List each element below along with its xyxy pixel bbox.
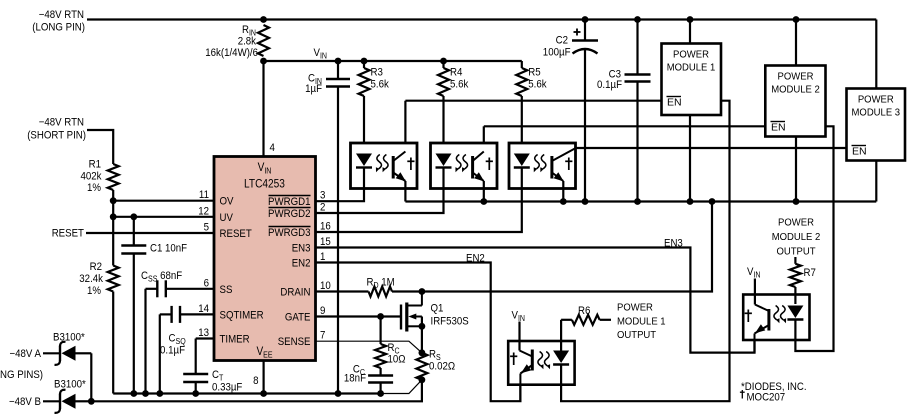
wire PM2 top lead bbox=[795, 20, 797, 66]
svg-text:1: 1 bbox=[320, 251, 325, 263]
wire UV line bbox=[113, 216, 214, 218]
op-amp U1 LTC4253 body bbox=[214, 157, 316, 361]
svg-text:PWRGD2: PWRGD2 bbox=[268, 208, 311, 220]
node C3 bottom bbox=[634, 198, 641, 205]
svg-text:MODULE 2: MODULE 2 bbox=[772, 232, 821, 243]
label POWER MODULE 1 OUTPUT bbox=[617, 303, 666, 342]
pin 7 SENSE label bbox=[278, 330, 326, 349]
svg-text:CSS 68nF: CSS 68nF bbox=[141, 270, 182, 284]
wire opto4 LED cathode to PM1 out bbox=[561, 101, 729, 402]
diode D1 B3100 (-48V A) bbox=[10, 332, 92, 365]
wire opto5 LED cathode to PM2 out bbox=[795, 126, 833, 351]
wire diode A down bbox=[90, 353, 92, 401]
pin number 4 bbox=[270, 142, 275, 154]
pin 11 OV label bbox=[199, 189, 234, 208]
wire drain line to rail bbox=[422, 202, 712, 292]
node C3 top bbox=[634, 16, 641, 23]
svg-text:0.02Ω: 0.02Ω bbox=[429, 361, 455, 373]
svg-text:GATE: GATE bbox=[285, 312, 311, 324]
svg-text:C2: C2 bbox=[556, 35, 568, 47]
svg-text:MODULE 2: MODULE 2 bbox=[771, 85, 820, 96]
wire opto5 emitter to EN3 bbox=[753, 340, 755, 353]
svg-text:TIMER: TIMER bbox=[220, 334, 250, 346]
label MOC207 bbox=[740, 390, 785, 404]
wire opto1 cathode to PWRGD1 bbox=[316, 189, 365, 202]
optocoupler U2 (PWRGD1) bbox=[351, 143, 418, 189]
node RC top bbox=[377, 313, 384, 320]
pin 2 PWRGD2 label bbox=[268, 202, 325, 221]
capacitor CT 0.33uF bbox=[183, 339, 242, 394]
label (LONG PINS) bbox=[0, 369, 43, 381]
resistor R2 bbox=[79, 261, 118, 297]
resistor R4 bbox=[438, 61, 469, 143]
pin 5 RESET label bbox=[204, 222, 252, 241]
svg-text:1µF: 1µF bbox=[305, 83, 322, 95]
svg-text:4: 4 bbox=[270, 142, 275, 154]
capacitor C1 10nF bbox=[121, 217, 187, 394]
label -48V RTN (LONG PIN) bbox=[32, 9, 85, 34]
svg-text:MODULE 1: MODULE 1 bbox=[617, 317, 666, 328]
svg-text:POWER: POWER bbox=[778, 72, 814, 83]
wire opto4 emitter to EN2 bbox=[519, 385, 521, 402]
wire PM2 bottom lead bbox=[795, 137, 797, 202]
svg-text:5.6k: 5.6k bbox=[371, 79, 390, 91]
label IC VEE bbox=[256, 346, 272, 360]
svg-text:EN: EN bbox=[771, 122, 786, 134]
label -48V RTN (SHORT PIN) bbox=[27, 117, 86, 142]
diode opto4 LED bbox=[553, 320, 569, 385]
node diode junction bbox=[88, 398, 95, 405]
svg-text:MOC207: MOC207 bbox=[747, 392, 786, 404]
wire RESET line bbox=[86, 232, 214, 234]
wire PM3 top lead bbox=[875, 20, 877, 89]
squiggle opto4 bbox=[538, 352, 550, 370]
svg-text:MODULE 1: MODULE 1 bbox=[667, 63, 716, 74]
svg-text:B3100*: B3100* bbox=[54, 379, 86, 391]
svg-text:14: 14 bbox=[198, 303, 209, 315]
wire VEE rail kelvin thin bbox=[381, 380, 422, 394]
svg-text:12: 12 bbox=[198, 205, 209, 217]
wire EN2 line (opto2 collector to PM2 EN) bbox=[484, 126, 766, 143]
wire CIN down to VEE rail bbox=[337, 87, 339, 394]
svg-text:B3100*: B3100* bbox=[53, 332, 85, 344]
pin 6 SS label bbox=[204, 277, 233, 296]
transistor opto5 bbox=[745, 309, 769, 340]
svg-text:EN3: EN3 bbox=[292, 243, 311, 255]
wire opto2 emitter down bbox=[483, 181, 485, 202]
svg-text:R2: R2 bbox=[90, 261, 102, 273]
svg-text:6: 6 bbox=[204, 277, 209, 289]
svg-text:0.33µF: 0.33µF bbox=[212, 382, 243, 394]
resistor RS 0.02ohm bbox=[416, 349, 455, 380]
svg-text:16k(1/4W)/6: 16k(1/4W)/6 bbox=[205, 47, 258, 59]
node R3 top bbox=[361, 58, 368, 65]
svg-text:0.1µF: 0.1µF bbox=[160, 345, 185, 357]
svg-text:POWER: POWER bbox=[673, 50, 709, 61]
capacitor CC 18nF bbox=[344, 364, 393, 394]
svg-text:0.1µF: 0.1µF bbox=[597, 79, 622, 91]
node CIN top bbox=[335, 58, 342, 65]
svg-text:MODULE 3: MODULE 3 bbox=[852, 108, 901, 119]
node RS top bbox=[419, 349, 426, 356]
svg-text:−48V A: −48V A bbox=[10, 348, 42, 360]
svg-text:13: 13 bbox=[198, 327, 209, 339]
wire PM3 bottom lead bbox=[875, 161, 877, 202]
transistor opto4 bbox=[510, 350, 532, 385]
node C1 bottom bbox=[130, 390, 137, 397]
svg-text:3: 3 bbox=[320, 190, 325, 202]
pin 10 DRAIN label bbox=[280, 280, 330, 299]
node Q1 source bbox=[419, 323, 426, 330]
svg-text:EN2: EN2 bbox=[292, 258, 311, 270]
svg-text:5: 5 bbox=[204, 222, 209, 234]
label IC VIN bbox=[258, 162, 272, 176]
svg-text:NG PINS): NG PINS) bbox=[0, 369, 43, 381]
svg-text:EN: EN bbox=[667, 97, 682, 109]
wire SENSE line thin bbox=[316, 341, 422, 353]
svg-text:R5: R5 bbox=[528, 67, 540, 79]
node CSS bottom bbox=[142, 390, 149, 397]
svg-text:R7: R7 bbox=[804, 267, 816, 279]
squiggle opto5 bbox=[774, 306, 786, 324]
node R4 top bbox=[440, 58, 447, 65]
svg-text:−48V RTN: −48V RTN bbox=[39, 117, 84, 129]
wire EN1 line (opto1 collector to PM1 EN) bbox=[405, 101, 661, 143]
wire opto5 collector lead bbox=[755, 279, 769, 312]
capacitor C3 0.1uF bbox=[597, 20, 651, 202]
svg-text:10Ω: 10Ω bbox=[388, 354, 406, 366]
node C2 top bbox=[582, 16, 589, 23]
power module 1 box bbox=[662, 44, 722, 116]
node drain riser bbox=[709, 198, 716, 205]
node UV C1 bbox=[130, 213, 137, 220]
resistor RIN bbox=[205, 24, 269, 59]
pin 16 PWRGD3 label bbox=[268, 221, 331, 240]
node R_IN top bbox=[260, 16, 267, 23]
node OV bbox=[110, 197, 117, 204]
pin 3 PWRGD1 label bbox=[268, 190, 325, 209]
resistor R5 bbox=[516, 61, 547, 143]
svg-text:32.4k: 32.4k bbox=[79, 273, 103, 285]
node opto2 emitter bbox=[480, 198, 487, 205]
optocoupler U5 box bbox=[508, 341, 574, 385]
svg-text:R6: R6 bbox=[578, 305, 590, 317]
svg-text:R1: R1 bbox=[89, 159, 101, 171]
node C2 bottom bbox=[582, 198, 589, 205]
wire EN3 route bbox=[316, 248, 755, 353]
wire -48V B line to RS bbox=[91, 380, 422, 402]
svg-text:2: 2 bbox=[320, 202, 325, 214]
capacitor CIN bbox=[305, 61, 350, 95]
svg-text:DRAIN: DRAIN bbox=[280, 287, 310, 299]
svg-text:18nF: 18nF bbox=[344, 373, 366, 385]
wire opto2 cathode to PWRGD2 bbox=[316, 189, 444, 214]
wire pin4 stub bbox=[262, 61, 264, 157]
wire -48V RTN top rail bbox=[87, 18, 876, 20]
svg-text:SENSE: SENSE bbox=[278, 336, 311, 348]
node RIN bottom / VIN rail bbox=[260, 58, 267, 65]
svg-text:SQTIMER: SQTIMER bbox=[220, 309, 264, 321]
wire VEE rail bbox=[113, 392, 381, 394]
svg-text:IRF530S: IRF530S bbox=[431, 316, 469, 328]
label POWER MODULE 2 OUTPUT bbox=[772, 218, 821, 258]
label VIN bbox=[314, 47, 328, 61]
svg-text:OUTPUT: OUTPUT bbox=[776, 247, 815, 258]
resistor R3 bbox=[359, 61, 390, 143]
node PM2 +in top bbox=[793, 16, 800, 23]
svg-text:10: 10 bbox=[320, 280, 331, 292]
svg-text:EN: EN bbox=[852, 146, 867, 158]
svg-text:LTC4253: LTC4253 bbox=[244, 179, 285, 191]
node UV col bbox=[110, 213, 117, 220]
svg-text:R4: R4 bbox=[450, 67, 462, 79]
transistor Q1 IRF530S bbox=[401, 292, 469, 353]
wire PM1 top lead bbox=[689, 20, 691, 44]
wire VIN rail bbox=[264, 60, 522, 62]
diode D2 B3100 (-48V B) bbox=[9, 379, 91, 413]
capacitor CSS 68nF bbox=[141, 270, 214, 394]
svg-text:2.8k: 2.8k bbox=[238, 36, 257, 48]
node CC bottom bbox=[377, 390, 384, 397]
label EN2 bbox=[466, 253, 485, 265]
node PM2 bottom bbox=[793, 198, 800, 205]
svg-text:Q1: Q1 bbox=[431, 303, 444, 315]
wire -48V OUT rail bbox=[405, 200, 876, 202]
wire opto1 LED anode bbox=[363, 167, 365, 189]
label IC LTC4253 bbox=[244, 179, 285, 191]
svg-text:C1 10nF: C1 10nF bbox=[150, 243, 187, 255]
power module 2 box bbox=[765, 66, 825, 137]
pin 12 UV label bbox=[198, 205, 233, 224]
svg-text:15: 15 bbox=[320, 236, 331, 248]
svg-text:−48V B: −48V B bbox=[9, 396, 41, 408]
pin 13 TIMER label bbox=[198, 327, 249, 346]
label EN3 bbox=[664, 238, 683, 250]
pin 14 SQTIMER label bbox=[198, 303, 263, 322]
svg-text:1%: 1% bbox=[87, 285, 101, 297]
label VIN opto5 bbox=[747, 266, 761, 280]
svg-text:RESET: RESET bbox=[220, 228, 253, 240]
svg-text:8: 8 bbox=[253, 375, 258, 387]
node PM1 +in top bbox=[687, 16, 694, 23]
wire opto2 LED anode bbox=[442, 167, 444, 189]
svg-text:5.6k: 5.6k bbox=[528, 79, 547, 91]
pin number 8 bbox=[253, 375, 258, 387]
resistor R1 bbox=[81, 159, 119, 195]
wire opto3 LED anode bbox=[521, 167, 523, 189]
svg-text:OV: OV bbox=[220, 196, 235, 208]
svg-text:R3: R3 bbox=[371, 67, 383, 79]
label RESET bbox=[52, 228, 85, 240]
svg-text:−48V RTN: −48V RTN bbox=[39, 9, 84, 21]
svg-text:(SHORT PIN): (SHORT PIN) bbox=[27, 130, 86, 142]
svg-text:7: 7 bbox=[320, 330, 325, 342]
wire VEE pin8 stub bbox=[263, 361, 265, 394]
node Q1 drain bbox=[419, 288, 426, 295]
power module 3 box bbox=[847, 89, 906, 161]
svg-text:(LONG PIN): (LONG PIN) bbox=[32, 22, 85, 34]
svg-text:PWRGD1: PWRGD1 bbox=[268, 196, 311, 208]
pin 1 EN2 label bbox=[292, 251, 326, 270]
svg-text:POWER: POWER bbox=[858, 95, 894, 106]
svg-text:5.6k: 5.6k bbox=[450, 79, 469, 91]
label DIODES INC bbox=[741, 381, 807, 393]
resistor RD 1M bbox=[316, 277, 422, 297]
svg-text:OUTPUT: OUTPUT bbox=[617, 330, 656, 341]
svg-text:PWRGD3: PWRGD3 bbox=[268, 227, 311, 239]
optocoupler U3 (PWRGD2) bbox=[431, 143, 498, 189]
node VEE pin bottom bbox=[260, 390, 267, 397]
optocoupler U6 box bbox=[743, 295, 809, 341]
wire OV line bbox=[113, 200, 214, 202]
wire EN2 route bbox=[316, 263, 521, 402]
wire opto4 collector lead bbox=[520, 322, 533, 357]
wire opto1 emitter down bbox=[404, 181, 406, 202]
node CIN bottom bbox=[335, 390, 342, 397]
label VIN opto4 bbox=[512, 310, 526, 324]
node CT bottom bbox=[192, 390, 199, 397]
node PM1 bottom bbox=[687, 198, 694, 205]
wire EN3 line (opto3 collector to PM3 EN) bbox=[576, 147, 847, 149]
svg-text:16: 16 bbox=[320, 221, 331, 233]
pin 15 EN3 label bbox=[292, 236, 331, 255]
capacitor C2 100uF bbox=[543, 20, 598, 202]
svg-text:402k: 402k bbox=[81, 171, 102, 183]
node RS bottom bbox=[419, 376, 426, 383]
wire opto3 cathode to PWRGD3 bbox=[316, 189, 522, 233]
svg-text:POWER: POWER bbox=[778, 218, 814, 229]
capacitor CSQ 0.1uF bbox=[160, 306, 214, 394]
svg-text:SS: SS bbox=[220, 284, 233, 296]
svg-text:1%: 1% bbox=[87, 182, 101, 194]
node CSQ bottom bbox=[156, 390, 163, 397]
wire R2 to VEE rail bbox=[112, 292, 114, 394]
optocoupler U4 (PWRGD3) bbox=[509, 143, 576, 189]
wire short-pin to R1 bbox=[87, 130, 113, 164]
resistor R7 bbox=[790, 257, 816, 304]
svg-text:UV: UV bbox=[220, 212, 234, 224]
wire opto3 emitter down bbox=[562, 181, 564, 202]
svg-text:RD 1M: RD 1M bbox=[367, 277, 395, 291]
wire GATE line bbox=[316, 315, 402, 317]
svg-text:POWER: POWER bbox=[617, 303, 653, 314]
diode opto5 LED bbox=[787, 306, 803, 341]
node opto3 emitter bbox=[560, 198, 567, 205]
svg-text:100µF: 100µF bbox=[543, 47, 571, 59]
svg-text:9: 9 bbox=[320, 305, 325, 317]
wire R1 to R2 column bbox=[112, 190, 114, 266]
svg-text:11: 11 bbox=[199, 189, 209, 201]
pin 9 GATE label bbox=[285, 305, 326, 324]
resistor RC 10ohm bbox=[375, 317, 405, 369]
resistor R6 bbox=[561, 305, 611, 325]
wire PM1 bottom lead bbox=[689, 115, 691, 202]
svg-text:RESET: RESET bbox=[52, 228, 85, 240]
